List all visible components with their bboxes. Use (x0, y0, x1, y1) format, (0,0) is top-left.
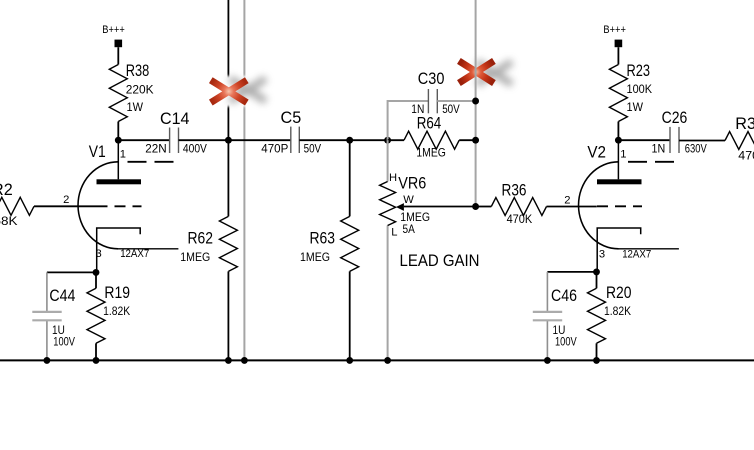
tube V2 envelope top dashed (628, 161, 675, 163)
capacitor C30 (427, 89, 429, 113)
tube V1 envelope arc (78, 162, 118, 249)
capacitor C14 (169, 128, 171, 154)
svg-text:C5: C5 (281, 109, 302, 127)
svg-text:470K: 470K (738, 149, 754, 163)
wire plate node to C14 (118, 139, 169, 141)
tube V1 envelope top dashed (128, 161, 175, 163)
resistor R36 (476, 206, 492, 208)
wire R38 to plate node (117, 122, 119, 141)
svg-text:V1: V1 (89, 143, 106, 161)
resistor R19 (95, 272, 97, 288)
svg-text:5A: 5A (403, 222, 416, 236)
tube V2 cathode (597, 228, 641, 272)
wire VR6 wiper to junction (404, 206, 476, 208)
svg-text:1W: 1W (127, 100, 144, 114)
svg-text:3: 3 (599, 249, 605, 261)
svg-text:W: W (403, 194, 414, 206)
tube V1 cathode (97, 228, 141, 272)
svg-text:1W: 1W (627, 100, 644, 114)
capacitor C5 (290, 127, 292, 153)
wire removed gray vertical net at x=244 (243, 0, 245, 360)
wire R63 top lead (349, 140, 351, 216)
svg-text:2: 2 (63, 194, 69, 206)
red X mark 1 shadow (230, 79, 266, 101)
svg-text:22N: 22N (145, 142, 166, 156)
node junction V2 cathode (593, 268, 600, 275)
wire R23 to V2 plate node (617, 122, 619, 141)
svg-text:100K: 100K (627, 82, 653, 96)
svg-text:100V: 100V (53, 335, 75, 349)
svg-text:VR6: VR6 (398, 175, 426, 193)
node B+++ terminal V1 supply (115, 40, 123, 48)
potentiometer VR6 leads (gray) (387, 140, 389, 181)
capacitor C44 (46, 272, 48, 311)
potentiometer VR6 wiper arrow (396, 203, 404, 211)
wire C30 right (gray) (437, 100, 475, 102)
tube V2 plate bar (597, 179, 642, 184)
capacitor C46 (546, 272, 548, 311)
tube V1 grid dashed (97, 205, 142, 207)
wire C14 to node A (179, 139, 229, 141)
svg-text:470P: 470P (261, 142, 288, 156)
svg-text:V2: V2 (587, 144, 606, 162)
red X mark 2 (deleted wire) (459, 61, 494, 83)
wire C26 to R31 (679, 140, 725, 142)
red X mark 1 paste background (204, 76, 272, 107)
resistor R23 (609, 65, 627, 122)
svg-text:50V: 50V (304, 142, 322, 156)
wire C30 left loop (gray) (388, 101, 429, 140)
node bus junction gray net 244 (241, 357, 248, 364)
wire cathode node to C46 (547, 271, 596, 273)
resistor R63 (341, 216, 359, 271)
svg-text:R63: R63 (310, 230, 336, 248)
svg-text:R20: R20 (606, 284, 632, 302)
svg-text:R23: R23 (627, 62, 651, 80)
svg-text:C44: C44 (49, 287, 75, 305)
tube V1 plate lead pin 1 (117, 140, 119, 179)
node junction R38/V1 plate (115, 137, 122, 144)
tube V1 envelope bottom line (118, 248, 178, 250)
wire R2 to V1 grid (34, 205, 97, 207)
resistor R2 (clipped at left edge) (0, 197, 34, 215)
svg-text:1: 1 (620, 149, 626, 161)
svg-text:2: 2 (564, 195, 570, 207)
svg-text:R62: R62 (188, 230, 214, 248)
svg-text:C14: C14 (160, 110, 190, 128)
svg-text:50V: 50V (442, 102, 460, 116)
svg-text:68K: 68K (0, 214, 18, 228)
tube V2 plate lead pin 1 (617, 140, 619, 179)
wire vertical black net at x=228 (crossed out top) (227, 0, 229, 216)
svg-text:1N: 1N (652, 142, 666, 156)
svg-text:12AX7: 12AX7 (622, 249, 651, 261)
svg-text:100V: 100V (555, 335, 577, 349)
svg-text:220K: 220K (126, 83, 154, 97)
svg-text:630V: 630V (685, 142, 708, 156)
red X mark 2 paste background (452, 56, 522, 92)
node bus junction VR6 low (384, 357, 391, 364)
svg-text:R19: R19 (104, 284, 130, 302)
svg-text:R64: R64 (417, 115, 442, 133)
wire C5 to R64 left node (299, 139, 387, 141)
svg-text:470K: 470K (507, 212, 533, 226)
node junction R64/C30 left (384, 137, 391, 144)
svg-text:1MEG: 1MEG (180, 250, 210, 264)
tube V2 envelope bottom line (619, 248, 679, 250)
svg-text:R2: R2 (0, 181, 13, 199)
svg-text:12AX7: 12AX7 (120, 248, 149, 260)
svg-text:H: H (389, 172, 397, 184)
svg-text:1: 1 (120, 149, 126, 161)
red X mark 2 shadow (477, 62, 512, 84)
svg-text:B+++: B+++ (603, 24, 626, 36)
svg-text:R36: R36 (502, 182, 527, 200)
tube V1 plate bar (97, 179, 142, 184)
node junction R63 top (346, 137, 353, 144)
wire plate node to C26 (618, 139, 670, 141)
node bus junction C46 (544, 357, 551, 364)
svg-text:L: L (391, 227, 397, 239)
wire removed gray vertical net at x=476 (475, 0, 477, 207)
node B+++ terminal V2 supply (615, 40, 623, 48)
svg-text:1MEG: 1MEG (416, 146, 446, 160)
node bus junction R20 (593, 357, 600, 364)
capacitor C26 (669, 127, 671, 153)
node junction V1 cathode (93, 269, 100, 276)
svg-text:400V: 400V (183, 142, 208, 156)
node bus junction R19 (93, 357, 100, 364)
wire node A to C5 (228, 139, 290, 141)
resistor R38 (109, 65, 127, 122)
svg-text:C46: C46 (551, 287, 577, 305)
wire B+++ to R38 (117, 47, 119, 64)
resistor R62 (219, 216, 237, 271)
svg-text:LEAD GAIN: LEAD GAIN (400, 252, 480, 270)
svg-text:1.82K: 1.82K (604, 304, 632, 318)
wire B+++ to R23 (617, 47, 619, 64)
svg-text:B+++: B+++ (102, 24, 125, 36)
resistor R64 (388, 139, 404, 141)
wire R63 bottom lead (349, 271, 351, 360)
tube V2 envelope arc (579, 162, 619, 249)
resistor R20 (596, 272, 598, 288)
node junction C14 / vertical net (225, 137, 232, 144)
node bus junction C44 (43, 357, 50, 364)
svg-text:C30: C30 (418, 70, 445, 88)
node junction R23/V2 plate (615, 137, 622, 144)
svg-text:1.82K: 1.82K (103, 304, 131, 318)
svg-text:R38: R38 (126, 62, 150, 80)
node bus junction R63 (346, 357, 353, 364)
node junction R64 right / gray net (472, 137, 479, 144)
svg-text:3: 3 (96, 248, 102, 260)
red X mark 1 (deleted wire) (211, 80, 247, 102)
svg-text:R31: R31 (735, 115, 754, 133)
node junction C30 right / gray net (472, 98, 479, 105)
wire ground bus (0, 359, 754, 361)
wire cathode node to C44 (47, 271, 96, 273)
node bus junction R62 (225, 357, 232, 364)
tube V2 grid dashed (597, 205, 642, 207)
svg-text:1MEG: 1MEG (300, 250, 330, 264)
potentiometer VR6 body (380, 182, 396, 226)
svg-text:C26: C26 (662, 109, 688, 127)
resistor R31 (clipped at right edge) (725, 132, 754, 150)
node junction wiper / gray net (472, 203, 479, 210)
